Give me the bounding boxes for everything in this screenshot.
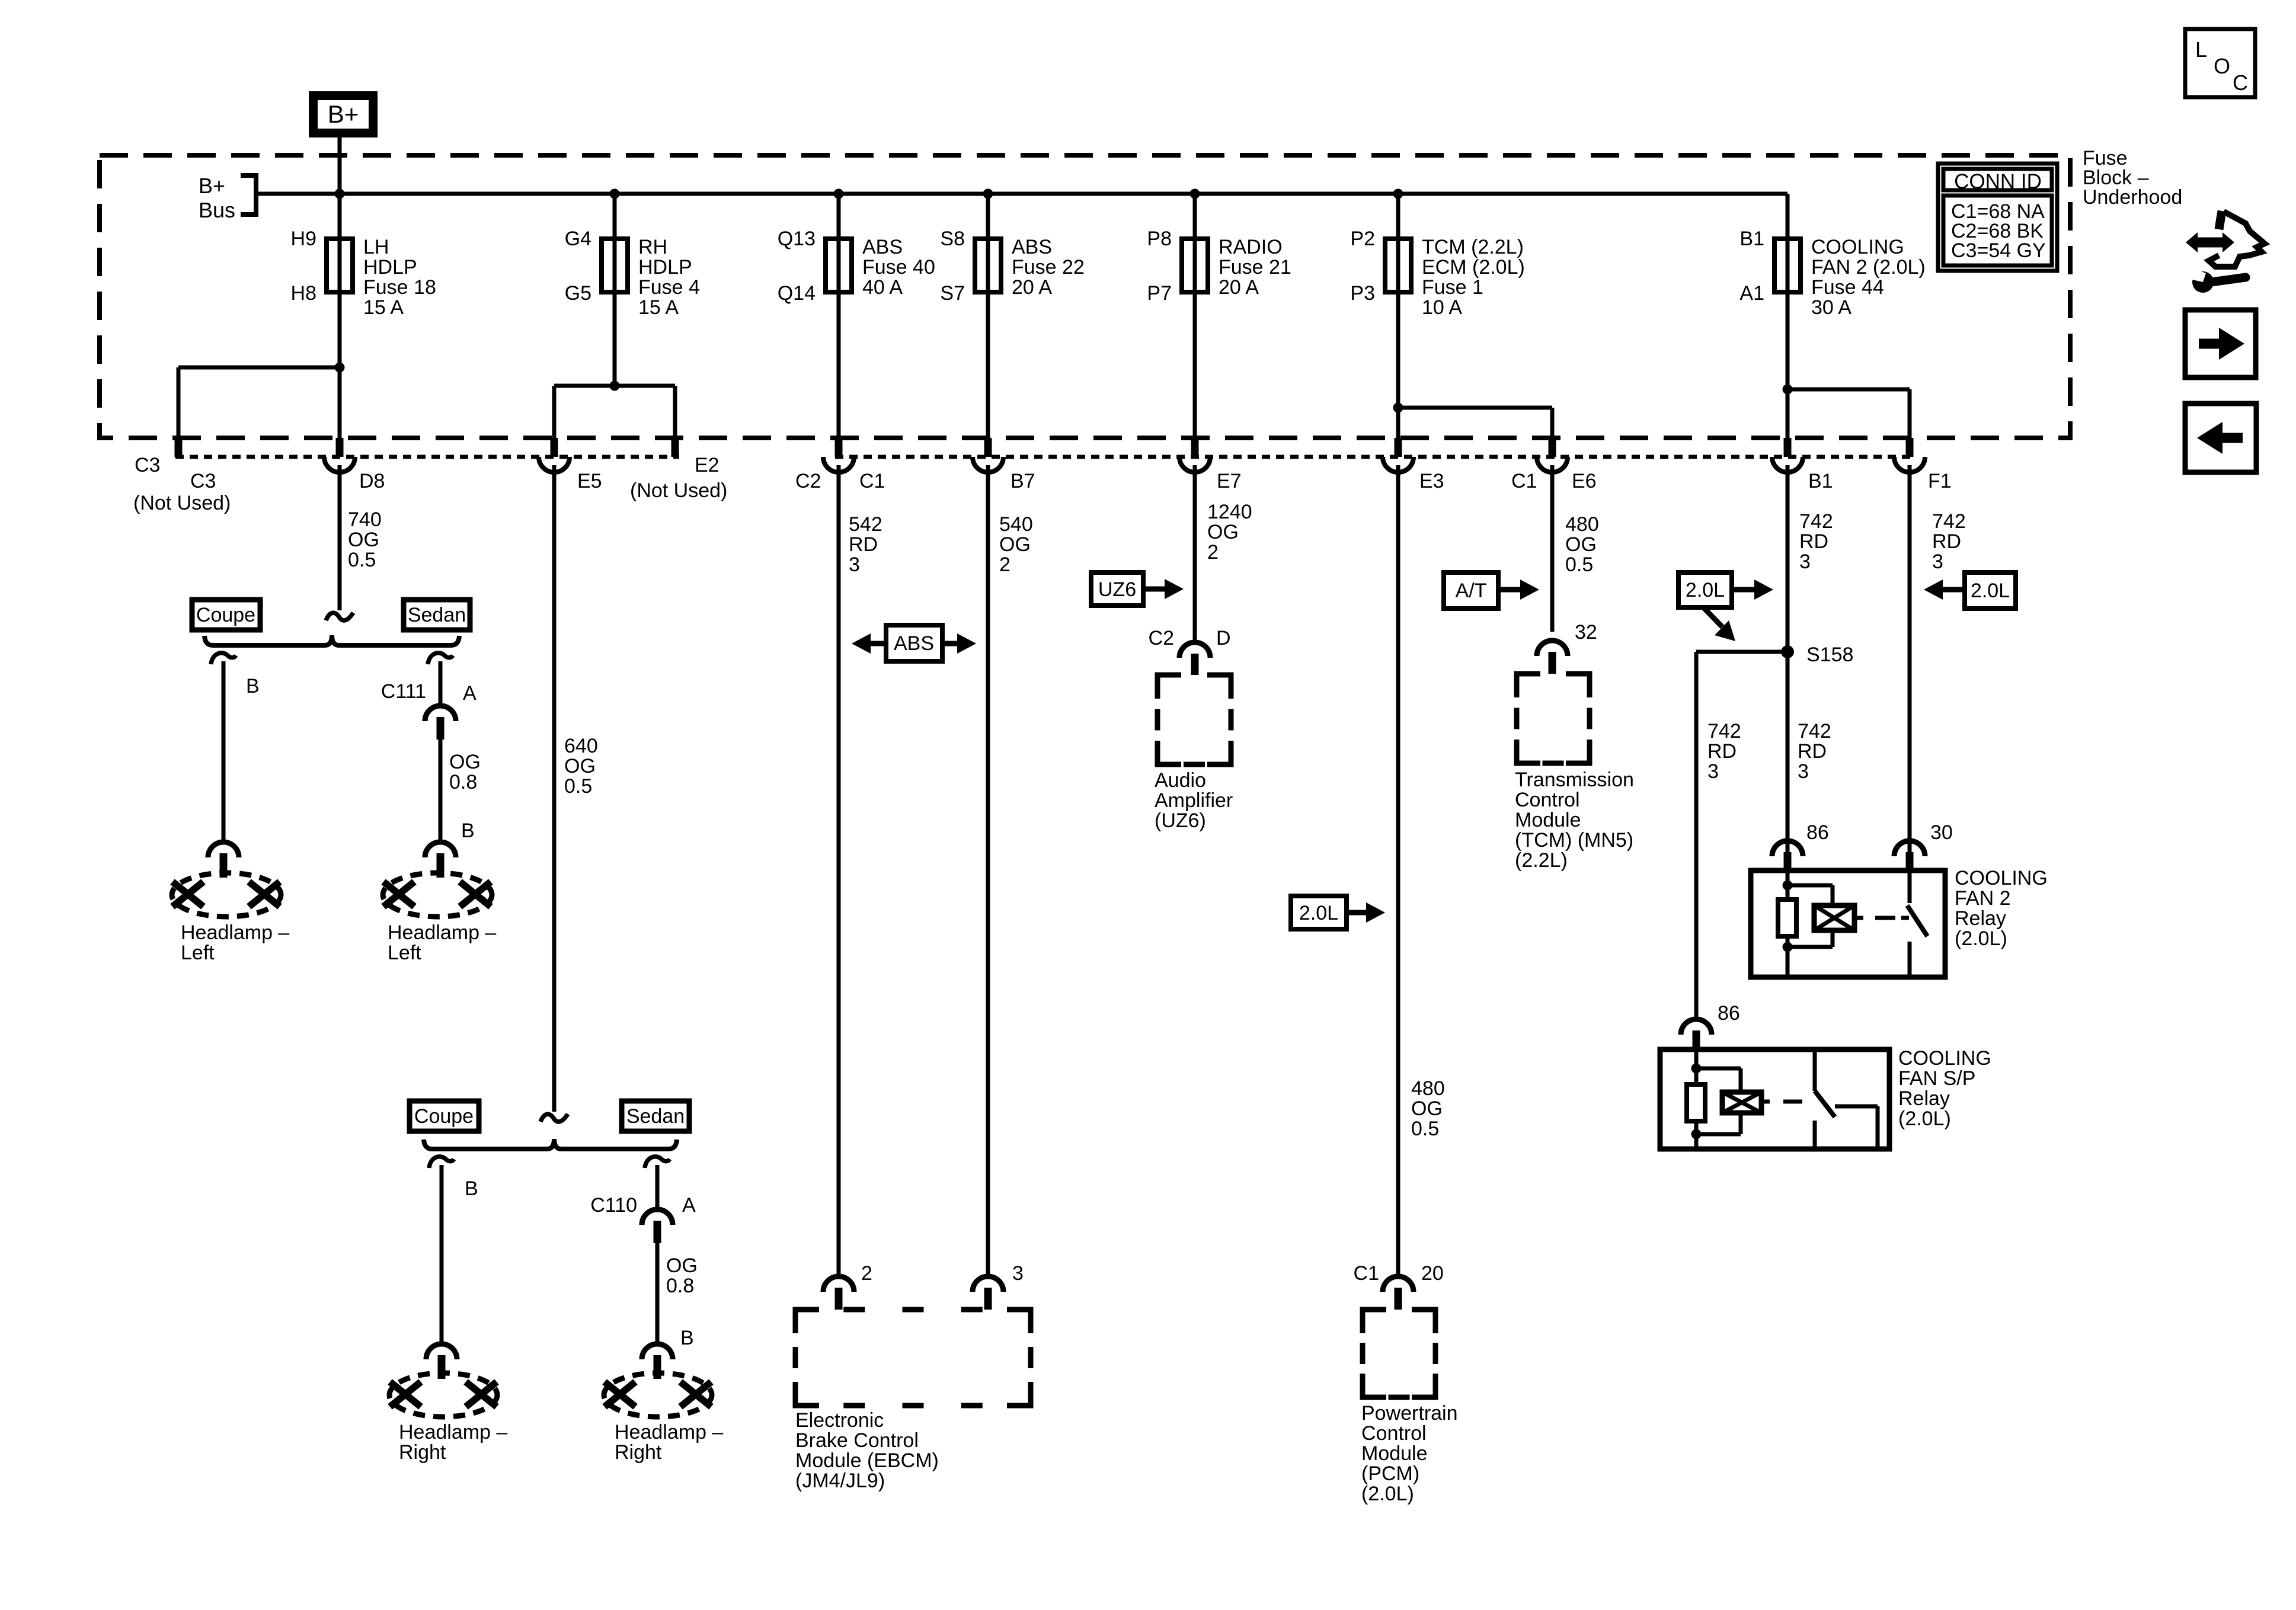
svg-text:Coupe: Coupe: [414, 1105, 474, 1128]
wire bus to Fuse 44: [1786, 194, 1790, 241]
bulb X left: [172, 882, 203, 907]
branch hook coupe RH: [429, 1157, 454, 1168]
bulb X right: [680, 1382, 711, 1407]
node bus junction x=2359: [1393, 189, 1403, 199]
branch hook sedan RH: [645, 1157, 670, 1168]
svg-text:3: 3: [1707, 760, 1719, 783]
svg-text:OG: OG: [449, 751, 481, 773]
svg-text:86: 86: [1806, 821, 1829, 844]
service icon (wrench and arrows): [2195, 238, 2225, 248]
wire sedan LH upper: [439, 661, 443, 706]
wire sedan RH upper: [655, 1165, 660, 1210]
connector headlamp right (coupe): [426, 1344, 457, 1359]
svg-text:3: 3: [1012, 1262, 1024, 1285]
svg-text:742: 742: [1707, 720, 1741, 742]
svg-text:(UZ6): (UZ6): [1155, 809, 1206, 832]
svg-text:(PCM): (PCM): [1361, 1462, 1419, 1485]
svg-text:OG: OG: [1411, 1097, 1443, 1120]
svg-text:(Not Used): (Not Used): [133, 492, 231, 514]
svg-text:B1: B1: [1739, 228, 1764, 250]
svg-text:Right: Right: [399, 1441, 446, 1464]
coil (S/P): [1722, 1092, 1761, 1113]
bulb X left: [390, 1382, 421, 1407]
connector F1: [1894, 457, 1925, 472]
svg-text:E2: E2: [695, 454, 720, 476]
svg-text:0.8: 0.8: [666, 1275, 694, 1297]
svg-text:RD: RD: [1799, 530, 1828, 553]
node bus junction x=2016: [1190, 189, 1200, 199]
bulb X right: [466, 1382, 497, 1407]
label box Coupe (LH): [192, 600, 260, 630]
wire E3 to PCM: [1396, 465, 1400, 1276]
pin stub x=2359: [1395, 438, 1402, 457]
nav arrow left box: [2185, 404, 2256, 472]
svg-text:2.0L: 2.0L: [1971, 580, 2010, 602]
LOC nav box: [2185, 29, 2255, 97]
svg-text:OG: OG: [564, 755, 596, 777]
svg-text:Relay: Relay: [1955, 907, 2006, 930]
svg-text:3: 3: [1932, 550, 1943, 573]
svg-text:480: 480: [1411, 1077, 1445, 1100]
svg-text:B1: B1: [1808, 470, 1833, 492]
PCM module box: [1363, 1310, 1435, 1397]
svg-text:G4: G4: [565, 228, 591, 250]
svg-text:Fuse 4: Fuse 4: [638, 276, 700, 299]
bulb X left: [605, 1382, 635, 1407]
wire B1 down to S158 and relay: [1786, 465, 1790, 854]
relay COOLING FAN S/P box: [1660, 1049, 1889, 1149]
fuse ABS at x=1667: [986, 194, 990, 296]
svg-text:20: 20: [1421, 1262, 1444, 1285]
pin stub x=573: [336, 438, 344, 457]
label box Sedan (RH): [622, 1101, 689, 1131]
svg-text:FAN S/P: FAN S/P: [1898, 1067, 1975, 1090]
wire E6 to TCM: [1550, 465, 1555, 632]
svg-text:Left: Left: [388, 942, 421, 964]
svg-text:B: B: [461, 820, 475, 842]
svg-text:Bus: Bus: [199, 198, 235, 222]
svg-text:ABS: ABS: [862, 236, 903, 258]
svg-text:C: C: [2233, 71, 2248, 95]
svg-text:10 A: 10 A: [1422, 296, 1462, 319]
connector C1: [823, 457, 854, 472]
svg-text:B: B: [680, 1327, 694, 1349]
connector E6: [1537, 457, 1568, 472]
svg-text:(2.2L): (2.2L): [1515, 849, 1568, 872]
svg-text:30: 30: [1930, 821, 1953, 844]
relay S/P coil circuit: [1694, 1051, 1699, 1084]
svg-text:E3: E3: [1419, 470, 1444, 492]
svg-text:Headlamp –: Headlamp –: [399, 1421, 507, 1443]
connector EBCM pin 2: [823, 1276, 854, 1292]
brace split LH: [204, 635, 459, 645]
connector EBCM pin 3: [973, 1276, 1003, 1292]
bulb X right: [249, 882, 280, 907]
svg-text:40 A: 40 A: [862, 276, 903, 299]
svg-text:COOLING: COOLING: [1898, 1047, 1991, 1070]
svg-text:RADIO: RADIO: [1219, 236, 1283, 258]
2.0L option label (PCM): [1291, 896, 1347, 929]
svg-text:2: 2: [861, 1262, 872, 1285]
wire TCM/ECM split: [1396, 292, 1400, 438]
svg-text:0.8: 0.8: [449, 771, 477, 793]
node bus junction x=1037: [610, 189, 620, 199]
connector B7: [973, 457, 1003, 472]
svg-text:(2.0L): (2.0L): [1955, 927, 2007, 950]
brace split RH: [424, 1139, 677, 1149]
svg-text:Sedan: Sedan: [408, 604, 466, 626]
svg-text:(JM4/JL9): (JM4/JL9): [795, 1470, 885, 1492]
svg-text:S158: S158: [1806, 644, 1853, 666]
wire coupe RH branch: [440, 1165, 444, 1344]
svg-text:H9: H9: [291, 228, 316, 250]
connector headlamp left (sedan): [425, 842, 456, 857]
Audio Amplifier module box: [1157, 675, 1231, 764]
svg-text:Fuse 1: Fuse 1: [1422, 276, 1483, 299]
svg-text:D8: D8: [359, 470, 385, 492]
pin stub x=1415: [835, 438, 843, 457]
wire F1 down to relay pin 30: [1908, 465, 1912, 854]
svg-text:0.5: 0.5: [1565, 553, 1593, 576]
svg-text:C2: C2: [1149, 627, 1174, 649]
svg-text:L: L: [2195, 37, 2207, 62]
headlamp right (coupe) bulb outline: [389, 1373, 497, 1417]
fuse block underhood dashed box: [100, 155, 2070, 438]
branch hook coupe LH: [211, 653, 236, 664]
svg-text:32: 32: [1575, 621, 1597, 644]
svg-text:0.5: 0.5: [348, 549, 376, 571]
svg-text:RH: RH: [638, 236, 667, 258]
svg-text:0.5: 0.5: [564, 775, 592, 798]
svg-text:OG: OG: [348, 529, 379, 551]
svg-text:COOLING: COOLING: [1955, 867, 2048, 889]
svg-text:B: B: [465, 1177, 478, 1200]
svg-text:Module (EBCM): Module (EBCM): [795, 1449, 939, 1472]
node bus junction x=573: [335, 189, 345, 199]
svg-text:E6: E6: [1572, 470, 1597, 492]
wire C1 to EBCM: [837, 465, 841, 1276]
svg-text:Headlamp –: Headlamp –: [388, 921, 496, 944]
wire B+ to bus: [338, 137, 342, 196]
svg-text:20 A: 20 A: [1012, 276, 1052, 299]
svg-text:HDLP: HDLP: [363, 256, 417, 279]
svg-text:B: B: [246, 675, 260, 697]
connector relay pin 30: [1894, 841, 1925, 856]
pin stub x=2016: [1191, 438, 1199, 457]
svg-text:RD: RD: [1798, 740, 1827, 763]
pin stub x=2619: [1549, 438, 1556, 457]
svg-text:740: 740: [348, 508, 382, 531]
connector relay pin 86 (S/P): [1681, 1019, 1712, 1035]
svg-text:Fuse 44: Fuse 44: [1811, 276, 1884, 299]
resistor (S/P): [1687, 1084, 1705, 1121]
EBCM module box: [795, 1310, 1031, 1406]
svg-text:Module: Module: [1361, 1442, 1428, 1465]
svg-text:Fuse 22: Fuse 22: [1012, 256, 1085, 279]
wire coupe LH branch: [222, 661, 226, 842]
svg-text:O: O: [2214, 54, 2230, 78]
wire D8 down: [338, 465, 342, 610]
B+ power feed box: [314, 96, 373, 133]
svg-text:P7: P7: [1147, 282, 1172, 305]
fuse COOLING FAN 2 (2.0L) at x=3016: [1786, 194, 1790, 296]
svg-text:Fuse 21: Fuse 21: [1219, 256, 1291, 279]
svg-text:2.0L: 2.0L: [1686, 579, 1725, 601]
svg-text:742: 742: [1932, 510, 1966, 533]
svg-text:P8: P8: [1147, 228, 1172, 250]
headlamp left (sedan) bulb outline: [383, 873, 492, 917]
svg-text:20 A: 20 A: [1219, 276, 1259, 299]
svg-text:OG: OG: [1207, 521, 1239, 543]
svg-text:Control: Control: [1361, 1422, 1427, 1445]
B+ Bus bracket: [241, 175, 256, 215]
wire S158 left branch: [1696, 650, 1787, 654]
pin stub x=3222: [1906, 438, 1914, 457]
wire sedan LH lower: [439, 740, 443, 842]
svg-text:Fuse 40: Fuse 40: [862, 256, 935, 279]
svg-text:C1: C1: [1511, 470, 1537, 492]
wire B7 to EBCM: [986, 465, 990, 1276]
svg-text:CONN ID: CONN ID: [1954, 170, 2042, 193]
pin stub x=935: [551, 438, 558, 457]
svg-text:540: 540: [999, 513, 1033, 536]
svg-text:A: A: [463, 682, 477, 705]
pin stub x=3016: [1784, 438, 1792, 457]
nav arrow right box: [2185, 310, 2256, 377]
svg-text:P3: P3: [1350, 282, 1375, 305]
svg-text:(2.0L): (2.0L): [1898, 1108, 1951, 1130]
svg-text:0.5: 0.5: [1411, 1118, 1439, 1140]
wire E5 down: [552, 465, 557, 1112]
svg-text:2: 2: [1207, 541, 1219, 564]
svg-text:OG: OG: [999, 533, 1031, 556]
svg-text:742: 742: [1798, 720, 1831, 742]
svg-text:ECM (2.0L): ECM (2.0L): [1422, 256, 1525, 279]
svg-text:1240: 1240: [1207, 501, 1252, 523]
coil-switch dashed link (fan2): [1854, 916, 1863, 920]
coil-switch dashed link (S/P): [1761, 1100, 1770, 1104]
svg-text:C3: C3: [190, 470, 216, 492]
headlamp right (sedan) bulb outline: [604, 1373, 712, 1417]
svg-text:HDLP: HDLP: [638, 256, 692, 279]
2.0L diagonal arrow: [1703, 607, 1722, 627]
pin stub x=1667: [984, 438, 992, 457]
svg-text:FAN 2: FAN 2: [1955, 887, 2010, 910]
svg-text:Underhood: Underhood: [2083, 186, 2182, 209]
bulb X left: [383, 882, 414, 907]
svg-text:2: 2: [999, 553, 1011, 576]
svg-text:30 A: 30 A: [1811, 296, 1851, 319]
A/T option label: [1444, 572, 1498, 609]
svg-text:Module: Module: [1515, 809, 1581, 831]
fuse ABS at x=1415: [837, 194, 841, 296]
headlamp left (coupe) bulb outline: [172, 873, 281, 917]
svg-text:FAN 2 (2.0L): FAN 2 (2.0L): [1811, 256, 1926, 279]
relay fan2 coil circuit: [1786, 872, 1790, 900]
svg-text:C3: C3: [135, 454, 160, 476]
wire RADIO down: [1193, 292, 1197, 438]
svg-text:Coupe: Coupe: [196, 604, 255, 626]
svg-text:Sedan: Sedan: [626, 1105, 685, 1128]
svg-text:B7: B7: [1011, 470, 1035, 492]
svg-text:(2.0L): (2.0L): [1361, 1483, 1414, 1505]
wire E7 to audio amp: [1193, 465, 1197, 642]
svg-text:Q14: Q14: [778, 282, 816, 305]
pin stub x=1139: [671, 438, 679, 457]
coil (fan2): [1814, 905, 1854, 930]
svg-text:C110: C110: [590, 1194, 637, 1217]
svg-text:Transmission: Transmission: [1515, 769, 1634, 791]
branch hook sedan LH: [428, 653, 453, 664]
bus wire: [255, 192, 1787, 196]
svg-text:2.0L: 2.0L: [1299, 902, 1338, 924]
connector headlamp right (sedan): [642, 1344, 673, 1359]
svg-text:Audio: Audio: [1155, 769, 1206, 792]
svg-text:A: A: [682, 1194, 696, 1217]
svg-text:3: 3: [1798, 760, 1809, 783]
svg-text:C3=54 GY: C3=54 GY: [1951, 239, 2046, 262]
svg-text:G5: G5: [565, 282, 591, 305]
TCM module box: [1517, 674, 1590, 763]
svg-text:(Not Used): (Not Used): [630, 479, 727, 502]
svg-text:Relay: Relay: [1898, 1087, 1950, 1110]
CONN ID table: [1938, 164, 2057, 271]
svg-text:Left: Left: [181, 942, 215, 964]
node S158: [1781, 645, 1794, 658]
svg-text:TCM (2.2L): TCM (2.2L): [1422, 236, 1524, 258]
svg-text:C111: C111: [381, 680, 426, 703]
ABS destination label: [886, 625, 942, 661]
connector E5: [539, 457, 570, 472]
bulb X right: [460, 882, 491, 907]
pin stub x=301: [175, 438, 183, 457]
svg-text:P2: P2: [1350, 228, 1375, 250]
svg-text:Brake Control: Brake Control: [795, 1429, 919, 1452]
svg-text:OG: OG: [666, 1254, 698, 1277]
svg-text:S7: S7: [940, 282, 965, 305]
svg-text:86: 86: [1718, 1002, 1740, 1025]
svg-text:D: D: [1216, 627, 1231, 649]
wire sedan RH lower: [655, 1243, 660, 1344]
wire RH HDLP split: [613, 292, 617, 386]
label box Sedan (LH): [404, 600, 470, 630]
svg-text:3: 3: [849, 553, 860, 576]
svg-text:742: 742: [1799, 510, 1833, 533]
connector E3: [1383, 457, 1414, 472]
label box Coupe (RH): [410, 1101, 479, 1131]
connector row dotted line C1-F1: [835, 455, 1913, 459]
svg-text:A/T: A/T: [1456, 580, 1487, 602]
wire break symbol: [326, 613, 353, 620]
svg-text:E5: E5: [577, 470, 602, 492]
svg-text:F1: F1: [1928, 470, 1952, 492]
svg-text:542: 542: [849, 513, 882, 536]
svg-text:ABS: ABS: [1012, 236, 1052, 258]
svg-text:Headlamp –: Headlamp –: [181, 921, 289, 944]
svg-text:C1: C1: [859, 470, 885, 492]
svg-text:Powertrain: Powertrain: [1361, 1402, 1458, 1425]
svg-text:RD: RD: [849, 533, 878, 556]
svg-text:15 A: 15 A: [638, 296, 679, 319]
svg-text:COOLING: COOLING: [1811, 236, 1904, 258]
svg-text:15 A: 15 A: [363, 296, 404, 319]
2.0L option label (fan): [1678, 572, 1732, 607]
svg-text:Q13: Q13: [778, 228, 816, 250]
wire Fuse44 split: [1786, 292, 1790, 438]
connector E7: [1179, 457, 1210, 472]
svg-text:Amplifier: Amplifier: [1155, 789, 1233, 812]
svg-text:(TCM) (MN5): (TCM) (MN5): [1515, 829, 1633, 852]
svg-text:Right: Right: [615, 1441, 662, 1464]
2.0L option label (F1): [1965, 572, 2016, 609]
svg-text:B+: B+: [328, 100, 359, 128]
svg-text:Headlamp –: Headlamp –: [615, 1421, 723, 1443]
svg-text:LH: LH: [363, 236, 389, 258]
wire ABS fuse22 down: [986, 292, 990, 438]
fuse TCM (2.2L) ECM (2.0L) at x=2359: [1396, 194, 1400, 296]
svg-text:RD: RD: [1932, 530, 1961, 553]
fuse LH HDLP at x=573: [338, 194, 342, 296]
svg-text:ABS: ABS: [894, 632, 934, 655]
switch (S/P): [1813, 1051, 1817, 1091]
svg-text:C1: C1: [1354, 1262, 1379, 1285]
resistor (fan2): [1778, 900, 1796, 936]
svg-text:640: 640: [564, 735, 598, 757]
connector D8: [324, 457, 355, 472]
wire break symbol E5: [541, 1114, 568, 1122]
node bus junction x=1667: [983, 189, 993, 199]
svg-text:E7: E7: [1217, 470, 1242, 492]
connector row dotted line C3-E2: [175, 455, 679, 459]
svg-text:C2: C2: [795, 470, 821, 492]
svg-text:480: 480: [1565, 513, 1599, 536]
svg-text:RD: RD: [1707, 740, 1737, 763]
svg-text:H8: H8: [291, 282, 316, 305]
connector B1: [1772, 457, 1803, 472]
svg-text:S8: S8: [940, 228, 965, 250]
node bus junction x=1415: [834, 189, 844, 199]
svg-text:A1: A1: [1739, 282, 1764, 305]
svg-text:Electronic: Electronic: [795, 1409, 884, 1432]
svg-text:B+: B+: [199, 174, 225, 198]
fuse RADIO at x=2016: [1193, 194, 1197, 296]
connector headlamp left (coupe): [208, 842, 239, 857]
wire LH HDLP split: [338, 292, 342, 438]
relay COOLING FAN 2 box: [1751, 870, 1945, 977]
UZ6 option label: [1091, 572, 1143, 606]
switch (fan2): [1908, 872, 1912, 903]
wire ABS fuse40 down: [837, 292, 841, 438]
svg-text:3: 3: [1799, 550, 1811, 573]
connector relay pin 86: [1772, 841, 1803, 856]
fuse RH HDLP at x=1037: [613, 194, 617, 296]
svg-text:Control: Control: [1515, 789, 1580, 811]
svg-text:UZ6: UZ6: [1098, 578, 1136, 601]
svg-text:OG: OG: [1565, 533, 1597, 556]
svg-text:Fuse 18: Fuse 18: [363, 276, 436, 299]
